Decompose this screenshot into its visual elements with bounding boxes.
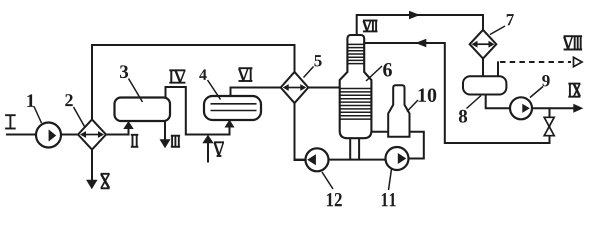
vessel 10 (heater bottle) — [388, 85, 409, 137]
vessel 4 internal tubes — [211, 104, 257, 111]
wire column overhead VII to exchanger 7 — [357, 15, 483, 77]
leader label 8 — [467, 96, 482, 109]
pipe IV vessel 3 top to vessel 4 bottom — [166, 87, 230, 135]
wire reflux return line — [364, 43, 549, 143]
exchanger 7 internal arrows — [472, 41, 495, 48]
stream arrow IX out — [573, 104, 583, 113]
column 6 neck packing — [347, 44, 364, 63]
pipe reboiler loop pump 11 to vessel 10 — [409, 132, 424, 159]
label 10 — [419, 88, 437, 101]
exchanger 5 internal arrows — [283, 84, 307, 91]
stream label IX — [568, 84, 580, 97]
wire feed V riser — [207, 138, 209, 163]
stream label VII — [363, 21, 378, 32]
pipe VI vessel 4 top to column 6 — [231, 88, 341, 98]
wire exchanger 2 down to outlet X — [91, 135, 93, 182]
leader label 5 — [304, 67, 314, 78]
pump 11 — [386, 147, 409, 170]
leader label 10 — [407, 100, 418, 112]
label 3 — [120, 65, 128, 78]
wire vessel 3 outlet III — [164, 119, 166, 141]
heat exchanger 2 — [78, 120, 106, 150]
label 11 — [382, 193, 396, 206]
label 8 — [459, 110, 467, 123]
leader label 2 — [74, 107, 85, 127]
stream arrow into vessel 3 (II) — [123, 121, 133, 129]
wire vessel 8 bottom to pump 9 — [486, 94, 511, 108]
label 7 — [507, 14, 514, 25]
leader label 9 — [530, 87, 543, 98]
vessel 8 (reflux drum) — [463, 76, 506, 94]
label 1 — [27, 94, 34, 107]
label 5 — [314, 55, 321, 66]
label 12 — [327, 193, 342, 206]
wire pump 9 discharge to IX — [532, 107, 576, 109]
column 6 shell — [340, 35, 372, 138]
wire vessel 8 vent stub — [497, 61, 499, 76]
stream arrow V in — [202, 135, 213, 144]
vessel 4 (heater drum) — [204, 96, 261, 120]
pump 9 — [510, 97, 532, 119]
label 9 — [542, 75, 549, 86]
leader label 11 — [389, 169, 392, 190]
exchanger 2 internal arrows — [80, 131, 104, 138]
heat exchanger 7 — [470, 30, 497, 59]
stream label III — [171, 136, 180, 147]
column 6 body packing — [340, 89, 372, 120]
label 6 — [383, 63, 392, 76]
open arrow VIII (dashed line) — [574, 57, 583, 66]
stream label VI — [239, 68, 253, 81]
stream label IV — [169, 70, 185, 82]
wire column bottom nozzle legs — [350, 137, 359, 160]
wire column bottom to pumps 11 and 12 — [306, 159, 386, 161]
stream label X — [101, 174, 110, 189]
stream label II — [131, 135, 139, 147]
heat exchanger 5 — [281, 72, 309, 103]
wire pump 12 to exchanger 5 — [295, 159, 307, 161]
leader label 12 — [322, 172, 333, 189]
stream arrow X out — [86, 180, 97, 190]
label 4 — [199, 69, 206, 80]
leader label 3 — [129, 79, 143, 103]
leader label 1 — [34, 107, 42, 124]
leader label 7 — [490, 26, 505, 35]
pump 1 — [36, 123, 61, 148]
wire vessel 10 to column 6 — [371, 131, 388, 133]
stream label VIII — [564, 36, 583, 49]
wire feed line I to vessel 3 — [6, 124, 129, 135]
wire dashed vent line VIII — [500, 61, 571, 63]
valve on reflux line — [544, 117, 554, 135]
leader label 4 — [208, 80, 221, 100]
flow arrow on overhead line — [409, 11, 420, 19]
wire heat-recovery loop top (exchanger 2 to exchanger 5) — [92, 45, 306, 160]
label 2 — [65, 94, 72, 106]
pump 12 — [306, 148, 329, 171]
stream arrow into vessel 4 — [225, 120, 235, 128]
stream label V — [214, 142, 224, 156]
vessel 3 (drum) — [115, 98, 171, 122]
stream label I — [5, 115, 16, 128]
flow arrow on reflux line — [415, 39, 426, 47]
stream arrow III out — [160, 139, 171, 148]
leader label 6 — [366, 66, 382, 81]
